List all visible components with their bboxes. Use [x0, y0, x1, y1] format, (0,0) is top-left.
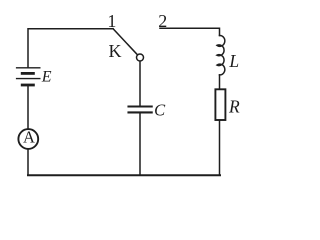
wire: [219, 120, 221, 175]
wire: [219, 75, 221, 89]
svg-text:C: C: [154, 100, 166, 119]
wire: [28, 29, 113, 67]
inductor L: [217, 35, 225, 74]
capacitor C: [129, 107, 152, 113]
svg-text:R: R: [228, 97, 240, 117]
svg-text:E: E: [41, 69, 52, 86]
wire: [27, 86, 29, 128]
svg-text:L: L: [228, 51, 239, 71]
svg-text:A: A: [23, 128, 35, 147]
svg-text:K: K: [109, 41, 122, 61]
ammeter A: [18, 129, 38, 149]
switch K pivot: [137, 54, 144, 61]
wire: [139, 61, 141, 105]
switch K blade: [113, 29, 137, 55]
battery E: [17, 68, 40, 85]
wire node 2 to inductor: [160, 28, 220, 35]
wire: [139, 114, 141, 176]
wire bottom: [28, 174, 220, 176]
wire: [27, 149, 29, 175]
svg-text:1: 1: [107, 11, 116, 31]
resistor R: [215, 89, 225, 120]
